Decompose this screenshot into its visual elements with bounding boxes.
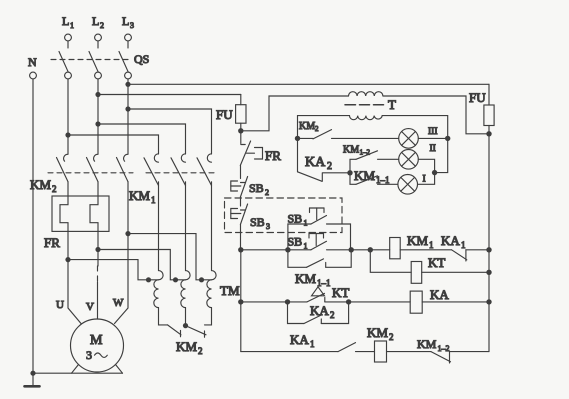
SB1 lower operator [309, 234, 324, 246]
FR contact label [265, 148, 281, 163]
lamp II [399, 150, 419, 170]
svg-text:3: 3 [86, 348, 92, 362]
contactor KM2 star contact B [186, 326, 207, 338]
FR heater element phase 2 [90, 182, 98, 250]
svg-text:KM: KM [343, 145, 359, 156]
NC KM1-2 label [417, 337, 450, 353]
node TM star point [183, 323, 188, 328]
wire L3 to right fuse FU2 [128, 83, 489, 85]
node FU2 out [486, 131, 491, 136]
svg-text:2: 2 [389, 332, 394, 342]
wire phase 3 through [127, 182, 129, 234]
contact KA1 NO [338, 343, 375, 352]
node L2 [92, 14, 104, 30]
wire L2 to left fuse FU1 [98, 94, 241, 96]
node rail2 b [346, 299, 351, 304]
node rail1 right [486, 247, 491, 252]
node lamp rail left top [295, 136, 300, 141]
start button SB1 lower contact [311, 241, 351, 250]
svg-text:L: L [92, 14, 99, 28]
coil KA [410, 291, 422, 313]
node TM3 tap [199, 277, 204, 282]
SB2 label [249, 181, 269, 197]
NC contact KM1-2 [431, 352, 489, 363]
svg-text:KA: KA [430, 287, 449, 302]
wire TM1 bottom [159, 308, 168, 325]
NC contact KA1 [452, 250, 489, 261]
svg-text:KT: KT [332, 285, 349, 300]
svg-text:3: 3 [266, 222, 270, 231]
node junction W tap [125, 231, 130, 236]
KA2 lamp label [305, 155, 332, 172]
svg-text:FR: FR [265, 148, 281, 163]
label V [86, 301, 94, 313]
contactor KM1 label [129, 188, 156, 205]
coil KM1 [390, 238, 401, 259]
contact KM2 lamp [298, 130, 399, 139]
node N [28, 55, 37, 69]
svg-text:KA: KA [290, 332, 309, 347]
time contact KT delayed [307, 287, 349, 302]
svg-text:III: III [428, 127, 438, 137]
motor feet [72, 365, 123, 374]
svg-text:TM: TM [220, 283, 240, 298]
node junction L2 branch tap [95, 121, 100, 126]
wire rail2 segment a [241, 301, 307, 303]
QS pole 2 [89, 41, 101, 79]
svg-text:U: U [56, 299, 64, 311]
terminal circle L1 [65, 34, 72, 41]
TM winding 1 [149, 182, 164, 308]
contact KM1-1 lamp branch [350, 173, 398, 185]
coil KA label [430, 287, 449, 302]
node KT right [486, 270, 491, 275]
KM2 main contact pole 1 [57, 154, 69, 182]
svg-text:L: L [62, 14, 69, 28]
svg-text:2: 2 [52, 184, 57, 194]
coil KM2 [375, 341, 387, 362]
wire lamp II right [418, 159, 434, 172]
motor label M 3~ [86, 333, 107, 362]
svg-text:1: 1 [429, 240, 434, 250]
svg-text:1–2: 1–2 [438, 344, 450, 353]
svg-text:V: V [86, 301, 94, 313]
coil KT [411, 262, 422, 284]
svg-text:II: II [430, 144, 436, 154]
svg-text:I: I [423, 175, 426, 185]
ground [25, 373, 40, 386]
TM winding 3 [202, 182, 217, 308]
wire left rail [240, 250, 242, 352]
KT contact label [332, 285, 349, 300]
node junction L3 top [125, 82, 130, 87]
wire motor lead U [68, 260, 81, 324]
svg-text:M: M [90, 333, 103, 348]
label U [56, 299, 64, 311]
node L3 [122, 14, 134, 30]
svg-text:2: 2 [327, 161, 332, 172]
svg-text:KA: KA [441, 233, 460, 248]
time relay KT coil branch [370, 250, 411, 272]
stop button SB2 [240, 177, 247, 207]
node TM2 tap [173, 277, 178, 282]
coil KT label [428, 255, 445, 270]
node junction ground [30, 371, 35, 376]
wire FU1 to T primary left [241, 96, 349, 131]
svg-text:KT: KT [428, 255, 445, 270]
disconnect switch QS label [134, 52, 149, 66]
wire rail1 segment a [241, 249, 311, 251]
svg-text:N: N [28, 55, 37, 69]
svg-text:KM: KM [354, 168, 375, 183]
KM2 main contact pole 2 [87, 154, 99, 182]
lamp I [398, 175, 418, 195]
TM winding 2 [176, 182, 191, 308]
svg-text:2: 2 [330, 310, 335, 320]
label W [113, 297, 124, 309]
transformer T primary [349, 92, 383, 96]
autotransformer TM label [220, 283, 240, 298]
wire motor lead W [115, 234, 129, 324]
KM2 star label [176, 339, 203, 356]
svg-text:L: L [122, 14, 129, 28]
svg-text:2: 2 [100, 21, 104, 30]
node junction L1 branch tap [65, 132, 70, 137]
svg-text:KA: KA [305, 155, 326, 170]
svg-text:SB: SB [249, 181, 264, 195]
wire lamp I right [418, 173, 435, 185]
node FU1 out [238, 128, 243, 133]
fuse FU2 label [469, 90, 486, 105]
holding contact KM1-1 branch [288, 250, 351, 267]
wire KT coil to rail [422, 271, 489, 273]
QS pole 1 [59, 41, 71, 79]
wire row3 segment b [387, 351, 432, 353]
svg-text:1: 1 [310, 339, 315, 349]
svg-text:SB: SB [288, 235, 303, 249]
node lamp rail right [445, 136, 450, 141]
SB1 upper operator [310, 208, 325, 220]
wire tap V to TM2 [98, 250, 176, 280]
svg-text:W: W [113, 297, 124, 309]
node rail2 a [285, 299, 290, 304]
wire rail2 segment b [349, 301, 411, 303]
KA2 holding label [310, 303, 335, 320]
KM1 main contact pole 1 [144, 154, 159, 186]
FR heater element phase 1 [60, 182, 68, 260]
node lamp mid [347, 170, 352, 175]
KM1 main contact pole 2 [171, 154, 186, 186]
node TM1 tap [146, 277, 151, 282]
svg-text:1: 1 [70, 21, 74, 30]
KM1 linkage dashed [146, 172, 214, 174]
contactor KM2 label [30, 177, 57, 194]
svg-text:1: 1 [304, 219, 308, 228]
lamp II label [430, 144, 436, 154]
wire L2 vertical [97, 79, 99, 154]
fuse FU1 [236, 95, 246, 131]
transformer T secondary [350, 116, 383, 120]
start button SB1 upper branch [288, 216, 351, 250]
lamp III [399, 129, 419, 149]
KM1-1 holding label [295, 271, 331, 288]
wire N vertical [32, 79, 34, 373]
SB1 lower label [288, 235, 308, 251]
node junction L3 branch tap [125, 106, 130, 111]
transformer T core dashes [345, 104, 384, 106]
svg-text:1–2: 1–2 [360, 149, 371, 157]
NC KA1 label [441, 233, 466, 250]
svg-text:KM: KM [367, 325, 388, 340]
svg-text:KM: KM [295, 271, 316, 286]
node rail1 a [285, 247, 290, 252]
fuse FU1 label [216, 107, 233, 122]
KM1-2 lamp label [343, 145, 371, 157]
thermal relay FR box [52, 196, 109, 231]
SB3 operator [231, 209, 241, 219]
wire tap W to TM3 [128, 234, 202, 280]
svg-text:1: 1 [151, 195, 156, 205]
svg-text:KM: KM [407, 233, 428, 248]
fuse FU2 [484, 84, 494, 134]
terminal circle N [30, 72, 37, 79]
coil KM1 label [407, 233, 434, 250]
contactor KM2 star contact A [168, 325, 182, 337]
node junction U tap [65, 257, 70, 262]
coil KM2 label [367, 325, 394, 342]
wire right rail [488, 134, 490, 352]
svg-text:1–1: 1–1 [317, 278, 331, 288]
dashed group box SB3-SB1 [225, 198, 343, 233]
svg-text:2: 2 [265, 188, 269, 197]
svg-text:FR: FR [44, 235, 60, 250]
wire rail2 segment c [422, 301, 489, 303]
svg-text:KM: KM [299, 121, 315, 132]
wire motor lead V [97, 250, 100, 320]
svg-text:SB: SB [250, 215, 265, 229]
node KT branch [368, 247, 373, 252]
node rail1 left [238, 247, 243, 252]
wire L1 vertical [67, 79, 69, 154]
wire T secondary right to lamp rail [382, 116, 448, 139]
terminal circle L2 [95, 34, 102, 41]
svg-text:1: 1 [304, 242, 308, 251]
svg-text:SB: SB [288, 212, 303, 226]
node rail2 right [486, 299, 491, 304]
svg-text:1–1: 1–1 [376, 175, 390, 185]
node L1 [62, 14, 74, 30]
svg-text:KM: KM [176, 339, 197, 354]
KA1 NO label [290, 332, 315, 349]
svg-text:3: 3 [130, 21, 134, 30]
wire L3 vertical [127, 79, 129, 154]
terminal circle L3 [125, 34, 132, 41]
svg-text:KA: KA [310, 303, 329, 318]
KM1-1 lamp label [354, 168, 390, 185]
node junction V tap [95, 247, 100, 252]
wire rail1 segment b [351, 249, 390, 251]
svg-text:T: T [388, 97, 396, 112]
thermal contact FR [240, 131, 250, 179]
motor M circle [71, 319, 124, 372]
QS pole 3 [119, 41, 131, 79]
SB2 operator [231, 181, 241, 191]
SB1 upper label [288, 212, 308, 228]
wire L2 tap to KM1 pole 2 [98, 124, 186, 154]
svg-text:KM: KM [30, 177, 51, 192]
lamp I label [423, 175, 426, 185]
contact KA2 lamp [298, 172, 351, 182]
SB3 label [250, 215, 270, 231]
node junction L2 control tap [95, 92, 100, 97]
wire TM3 bottom [205, 308, 212, 325]
svg-text:2: 2 [198, 346, 203, 356]
wire TM2 bottom [185, 308, 187, 326]
node lamp right join [432, 170, 437, 175]
holding contact KA2 branch [288, 302, 349, 324]
svg-text:2: 2 [315, 125, 319, 133]
svg-text:FU: FU [216, 107, 233, 122]
wire lamp right rail [435, 138, 448, 172]
wire lamp left rail [297, 138, 299, 171]
thermal relay FR label [44, 235, 60, 250]
stop button SB3 [240, 204, 247, 250]
svg-text:QS: QS [134, 52, 149, 66]
node rail2 left [238, 299, 243, 304]
svg-text:KM: KM [129, 188, 150, 203]
node rail1 b [349, 247, 354, 252]
contact KM1-2 lamp branch [350, 151, 399, 173]
KM2 main contact pole 3 [117, 154, 129, 182]
svg-text:FU: FU [469, 90, 486, 105]
wire T primary right to FU2 out [383, 96, 489, 134]
wire T secondary left to lamp rail [298, 116, 350, 139]
KM2 linkage dashed [48, 172, 133, 174]
wire bottom neutral [33, 372, 123, 374]
transformer T label [388, 97, 396, 112]
svg-text:KM: KM [417, 337, 437, 351]
KM1 main contact pole 3 [197, 154, 212, 186]
svg-text:1: 1 [461, 240, 466, 250]
FR thermal actuator [247, 148, 263, 160]
lamp III label [428, 127, 438, 137]
QS linkage dashed [51, 59, 131, 61]
KM2 lamp label [299, 121, 319, 133]
wire row3 left corner [241, 351, 338, 353]
wire rail1 segment c [400, 249, 451, 251]
wire lamp III right [418, 137, 447, 139]
wire L3 tap to KM1 pole 3 [128, 109, 212, 154]
wire tap U to TM1 [68, 260, 149, 280]
wire L1 tap to KM1 pole 1 [68, 135, 159, 154]
